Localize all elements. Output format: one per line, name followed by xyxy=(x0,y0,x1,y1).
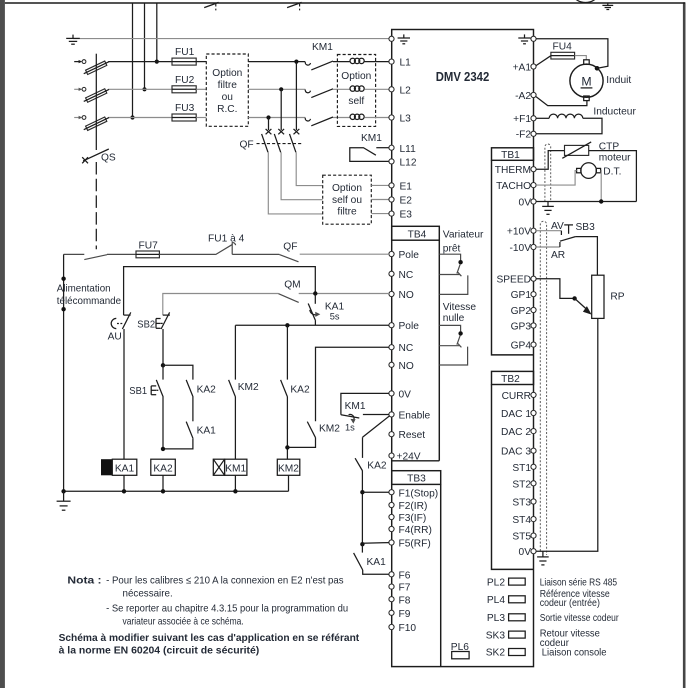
svg-text:ST1: ST1 xyxy=(512,463,531,474)
svg-text:Option: Option xyxy=(212,68,242,79)
svg-text:F6: F6 xyxy=(399,570,411,581)
svg-text:SK2: SK2 xyxy=(486,648,506,659)
svg-text:L12: L12 xyxy=(400,158,417,169)
svg-text:ST2: ST2 xyxy=(512,479,531,490)
svg-text:codeur (entrée): codeur (entrée) xyxy=(540,598,600,609)
svg-text:NO: NO xyxy=(399,361,414,372)
svg-text:QM: QM xyxy=(284,280,300,291)
svg-text:QS: QS xyxy=(101,153,116,164)
svg-text:E1: E1 xyxy=(400,181,413,192)
svg-text:filtre: filtre xyxy=(218,80,238,91)
svg-text:KA1: KA1 xyxy=(367,557,387,568)
svg-text:nécessaire.: nécessaire. xyxy=(123,589,173,600)
svg-text:5s: 5s xyxy=(330,311,340,321)
svg-text:ST5: ST5 xyxy=(512,532,531,543)
svg-text:DAC 2: DAC 2 xyxy=(501,427,531,438)
svg-text:SB3: SB3 xyxy=(576,222,596,233)
svg-text:KM1: KM1 xyxy=(361,133,382,144)
svg-text:KA2: KA2 xyxy=(153,463,173,474)
svg-text:nulle: nulle xyxy=(443,313,465,324)
svg-text:0V: 0V xyxy=(399,389,412,400)
svg-text:CTP: CTP xyxy=(599,141,620,152)
svg-text:F9: F9 xyxy=(399,609,411,620)
svg-text:KM1: KM1 xyxy=(345,401,366,412)
svg-text:TACHO: TACHO xyxy=(496,181,531,192)
svg-text:Option: Option xyxy=(332,183,362,194)
svg-text:Nota :: Nota : xyxy=(67,575,101,586)
svg-text:prêt: prêt xyxy=(443,244,461,255)
svg-text:KA2: KA2 xyxy=(197,384,217,395)
svg-text:AU: AU xyxy=(108,332,122,343)
svg-text:FU2: FU2 xyxy=(175,75,195,86)
svg-text:SK3: SK3 xyxy=(486,630,506,641)
svg-text:self: self xyxy=(348,96,364,107)
svg-text:KA1: KA1 xyxy=(115,463,135,474)
svg-text:FU3: FU3 xyxy=(175,103,195,114)
svg-text:AR: AR xyxy=(551,250,565,261)
svg-text:0V: 0V xyxy=(519,198,532,209)
svg-text:ST3: ST3 xyxy=(512,498,531,509)
svg-text:Liaison série RS 485: Liaison série RS 485 xyxy=(540,577,618,588)
svg-text:GP1: GP1 xyxy=(511,290,532,301)
svg-text:DAC 3: DAC 3 xyxy=(501,447,531,458)
svg-text:PL3: PL3 xyxy=(487,613,505,624)
svg-text:KA2: KA2 xyxy=(290,384,310,395)
svg-text:KM1: KM1 xyxy=(312,42,333,53)
svg-text:-10V: -10V xyxy=(509,243,531,254)
svg-text:PL4: PL4 xyxy=(487,595,505,606)
svg-text:KM2: KM2 xyxy=(278,463,299,474)
svg-text:Enable: Enable xyxy=(399,410,431,421)
svg-text:KM1: KM1 xyxy=(225,463,246,474)
svg-text:F2(IR): F2(IR) xyxy=(399,501,428,512)
svg-text:GP4: GP4 xyxy=(511,341,532,352)
svg-text:QF: QF xyxy=(283,241,297,252)
svg-text:Variateur: Variateur xyxy=(443,230,484,241)
svg-text:SB2: SB2 xyxy=(137,320,155,331)
svg-text:PL2: PL2 xyxy=(487,577,505,588)
svg-text:Liaison console: Liaison console xyxy=(542,648,607,659)
svg-text:R.C.: R.C. xyxy=(217,104,237,115)
svg-text:Pole: Pole xyxy=(399,250,420,261)
svg-text:F5(RF): F5(RF) xyxy=(399,539,431,550)
svg-text:Inducteur: Inducteur xyxy=(593,107,636,118)
svg-text:SPEED: SPEED xyxy=(496,275,531,286)
svg-text:RP: RP xyxy=(610,292,624,303)
svg-text:M: M xyxy=(581,75,591,89)
svg-text:Reset: Reset xyxy=(399,430,426,441)
svg-text:F10: F10 xyxy=(399,623,417,634)
svg-text:DAC 1: DAC 1 xyxy=(501,409,531,420)
svg-text:variateur associée à ce schém: variateur associée à ce schéma. xyxy=(123,617,244,628)
svg-text:L3: L3 xyxy=(400,114,412,125)
svg-text:0V: 0V xyxy=(519,547,532,558)
svg-text:TB4: TB4 xyxy=(408,229,427,240)
svg-text:+F1: +F1 xyxy=(513,114,531,125)
svg-text:à la norme EN 60204 (circuit d: à la norme EN 60204 (circuit de sécurité… xyxy=(59,646,260,657)
svg-text:Alimentation: Alimentation xyxy=(57,284,111,295)
svg-text:E2: E2 xyxy=(400,196,413,207)
svg-text:L11: L11 xyxy=(400,144,417,155)
svg-text:FU1: FU1 xyxy=(175,47,195,58)
svg-text:SB1: SB1 xyxy=(129,386,147,397)
svg-text:1s: 1s xyxy=(345,423,355,433)
svg-text:NO: NO xyxy=(399,290,414,301)
svg-text:Vitesse: Vitesse xyxy=(443,302,477,313)
svg-text:TB1: TB1 xyxy=(501,150,520,161)
svg-text:Schéma à modifier suivant les: Schéma à modifier suivant les cas d'appl… xyxy=(59,633,360,644)
svg-text:KM2: KM2 xyxy=(238,382,259,393)
svg-text:-A2: -A2 xyxy=(515,91,531,102)
svg-text:ST4: ST4 xyxy=(512,515,531,526)
svg-text:TB2: TB2 xyxy=(501,374,520,385)
svg-text:+10V: +10V xyxy=(507,227,531,238)
svg-text:-F2: -F2 xyxy=(516,130,532,141)
svg-text:Option: Option xyxy=(341,71,371,82)
svg-text:E3: E3 xyxy=(400,210,413,221)
svg-text:GP3: GP3 xyxy=(511,322,532,333)
svg-text:L1: L1 xyxy=(400,58,412,69)
svg-text:F7: F7 xyxy=(399,583,411,594)
svg-text:FU4: FU4 xyxy=(553,42,573,53)
svg-text:+A1: +A1 xyxy=(513,62,532,73)
svg-text:D.T.: D.T. xyxy=(603,166,621,177)
svg-text:GP2: GP2 xyxy=(511,306,532,317)
svg-text:Induit: Induit xyxy=(606,75,631,86)
svg-text:self ou: self ou xyxy=(332,195,362,206)
svg-text:L2: L2 xyxy=(400,85,412,96)
svg-text:NC: NC xyxy=(399,343,414,354)
svg-text:KA2: KA2 xyxy=(367,461,387,472)
svg-text:THERM: THERM xyxy=(495,165,531,176)
svg-text:FU7: FU7 xyxy=(139,240,159,251)
svg-text:F1(Stop): F1(Stop) xyxy=(399,488,439,499)
svg-text:KM2: KM2 xyxy=(319,424,340,435)
svg-text:FU1 à 4: FU1 à 4 xyxy=(208,233,245,244)
svg-text:KA1: KA1 xyxy=(197,425,217,436)
svg-text:F8: F8 xyxy=(399,595,411,606)
svg-text:F4(RR): F4(RR) xyxy=(399,525,432,536)
svg-text:F3(IF): F3(IF) xyxy=(399,513,427,524)
svg-text:ou: ou xyxy=(222,92,233,103)
svg-text:Pole: Pole xyxy=(399,321,420,332)
svg-text:Sortie vitesse codeur: Sortie vitesse codeur xyxy=(540,613,619,624)
svg-text:DMV 2342: DMV 2342 xyxy=(436,69,490,84)
svg-text:NC: NC xyxy=(399,270,414,281)
svg-text:moteur: moteur xyxy=(599,152,631,163)
svg-text:- Pour les calibres ≤ 210 A la: - Pour les calibres ≤ 210 A la connexion… xyxy=(106,575,344,586)
svg-text:télécommande: télécommande xyxy=(57,296,122,307)
svg-text:CURR: CURR xyxy=(502,391,531,402)
svg-text:filtre: filtre xyxy=(337,207,357,218)
svg-text:QF: QF xyxy=(240,140,254,151)
svg-text:TB3: TB3 xyxy=(407,474,426,485)
svg-text:- Se reporter au chapitre 4.3.: - Se reporter au chapitre 4.3.15 pour la… xyxy=(106,603,348,614)
